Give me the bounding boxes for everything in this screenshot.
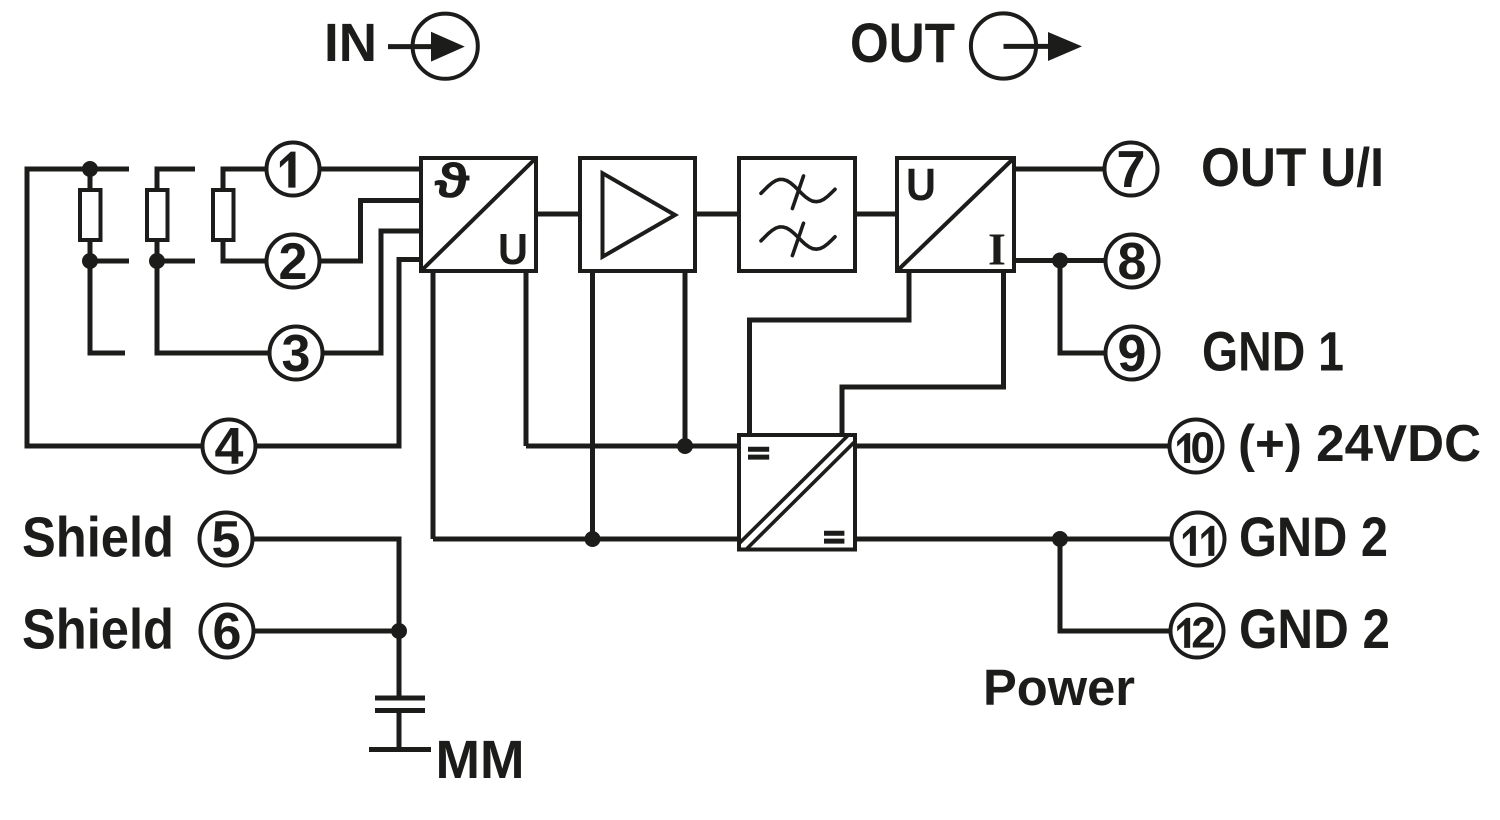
OUT arrow lead wire xyxy=(1004,44,1053,49)
OUT arrowhead xyxy=(1048,32,1082,61)
wire from terminal 4 loop to top rail xyxy=(27,169,202,446)
node junction dot amp bottom-left on rail xyxy=(585,531,601,547)
svg-text:OUT U/I: OUT U/I xyxy=(1201,136,1384,198)
wire U1 bottom right to supply rail xyxy=(524,271,529,446)
wire U2 to terminal 7 xyxy=(1014,167,1105,172)
A1 amplifier triangle symbol xyxy=(603,173,676,257)
svg-text:7: 7 xyxy=(1117,141,1146,199)
terminal 6 xyxy=(201,605,254,658)
IN measuring circle xyxy=(413,14,478,79)
svg-text:I: I xyxy=(988,224,1006,275)
wire amplifier to filter xyxy=(695,212,741,217)
wire R2 bottom run to terminal 3 xyxy=(157,238,268,353)
node junction dot GND1 xyxy=(1052,253,1068,269)
wire GND2 rail to terminal 11 xyxy=(855,537,1172,542)
wire R1 bottom stub right xyxy=(90,259,129,264)
node junction dot shield xyxy=(391,623,407,639)
svg-text:4: 4 xyxy=(215,418,244,476)
wire resistor R3 top elbow to terminal 1 xyxy=(223,169,265,192)
wire GND rail to U3 left xyxy=(433,537,739,542)
wire A1 bottom left to GND rail xyxy=(590,271,595,539)
terminal 9 xyxy=(1106,327,1159,380)
wire resistor R1 top stub xyxy=(88,169,93,192)
wire U2 to terminal 8 xyxy=(1014,258,1106,263)
IN arrowhead xyxy=(431,32,465,62)
svg-text:(+) 24VDC: (+) 24VDC xyxy=(1238,415,1481,473)
node junction dot R1 bottom xyxy=(82,253,98,269)
amplifier A1 box xyxy=(580,158,695,271)
svg-text:Power: Power xyxy=(983,659,1135,716)
svg-text:8: 8 xyxy=(1118,233,1147,291)
ground MM bar xyxy=(369,747,431,752)
svg-text:2: 2 xyxy=(279,233,308,291)
wire R1 bottom run xyxy=(90,238,125,353)
terminal 7 xyxy=(1105,143,1158,196)
wire filter to U/I converter xyxy=(855,212,899,217)
terminal 11 xyxy=(1172,513,1225,566)
wire R3 bottom elbow to terminal 2 xyxy=(223,238,265,261)
terminal 10 xyxy=(1170,420,1223,473)
wire branch to terminal 12 xyxy=(1060,539,1171,631)
svg-text:IN: IN xyxy=(324,13,377,73)
wire resistor R2 top elbow xyxy=(157,169,195,192)
wire A1 bottom right to supply rail xyxy=(683,271,688,446)
wire capacitor to ground xyxy=(397,712,402,748)
svg-text:ϑ: ϑ xyxy=(434,153,470,207)
node junction dot amp bottom-right on rail xyxy=(677,438,693,454)
capacitor C1 plate bottom xyxy=(375,708,425,713)
U3 label = primary xyxy=(748,447,769,452)
capacitor C1 plate top xyxy=(375,696,425,701)
svg-text:U: U xyxy=(498,225,528,274)
resistor R3 xyxy=(213,190,234,240)
terminal 4 xyxy=(203,420,256,473)
OUT output circle xyxy=(971,13,1036,78)
terminal 8 xyxy=(1106,235,1159,288)
resistor R1 xyxy=(80,190,101,240)
wire R2 bottom stub right xyxy=(157,259,195,264)
U1 diagonal divider xyxy=(422,159,536,271)
terminal 12 xyxy=(1171,605,1224,658)
svg-text:5: 5 xyxy=(212,511,241,569)
wire U3 to terminal 10 xyxy=(855,444,1170,449)
svg-text:U: U xyxy=(906,159,936,210)
terminal 3 xyxy=(270,327,323,380)
terminal 1 xyxy=(267,143,320,196)
wire terminal 3 to converter xyxy=(323,231,422,353)
svg-text:2: 2 xyxy=(1191,608,1215,657)
svg-text:MM: MM xyxy=(436,730,525,790)
svg-text:GND 2: GND 2 xyxy=(1239,505,1388,568)
svg-text:Shield: Shield xyxy=(22,597,174,661)
node junction dot R1 top xyxy=(82,161,98,177)
wire terminal 2 to converter xyxy=(320,201,422,262)
terminal 2 xyxy=(267,235,320,288)
node junction dot R2 bottom xyxy=(149,253,165,269)
svg-text:6: 6 xyxy=(213,603,242,661)
converter U2 U/I box xyxy=(897,158,1014,271)
converter U1 theta/U box xyxy=(421,158,536,271)
F1 wave symbol upper xyxy=(761,176,835,209)
svg-text:0: 0 xyxy=(1190,424,1214,473)
wire branch to terminal 9 xyxy=(1060,261,1106,354)
svg-text:3: 3 xyxy=(282,325,311,383)
svg-text:GND 1: GND 1 xyxy=(1202,320,1344,383)
wire terminal 1 to converter xyxy=(320,167,422,172)
wire supply rail to U3 left xyxy=(526,444,739,449)
wire U2 bottom right to U3 top xyxy=(842,271,1004,437)
terminal 5 xyxy=(200,513,253,566)
U3 label = secondary xyxy=(824,531,844,536)
wire terminal 5 shield run xyxy=(253,539,400,696)
wire terminal 6 shield stub xyxy=(254,629,400,634)
wire terminal 4 to converter xyxy=(256,260,422,447)
wire U1 to amplifier xyxy=(536,212,582,217)
filter F1 box xyxy=(739,158,855,271)
svg-text:GND 2: GND 2 xyxy=(1239,597,1390,660)
node junction dot GND2 xyxy=(1052,531,1068,547)
F1 wave symbol lower xyxy=(761,223,835,255)
resistor R2 xyxy=(147,190,168,240)
svg-text:OUT: OUT xyxy=(850,11,955,74)
U2 diagonal divider xyxy=(898,159,1014,271)
wire U1 bottom left to GND rail xyxy=(431,271,436,539)
IN arrow lead wire xyxy=(388,44,434,49)
svg-text:Shield: Shield xyxy=(22,505,174,569)
svg-text:9: 9 xyxy=(1118,325,1147,383)
wire U2 bottom left to U3 top xyxy=(750,271,910,437)
DC/DC converter U3 box xyxy=(739,435,855,550)
